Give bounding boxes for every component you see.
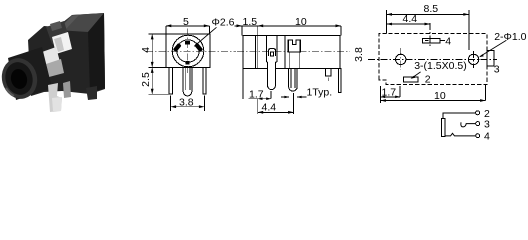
dim 4.4 bottom side [258,93,294,114]
svg-text:1Typ.: 1Typ. [307,87,333,99]
dim 1.5 / 10 top [234,26,341,36]
contact mark top [185,41,190,44]
slot 3 right [487,51,494,67]
svg-text:4: 4 [445,35,451,47]
svg-text:1.7: 1.7 [249,89,264,101]
body foot [86,86,97,100]
front pin right [203,68,206,94]
side pin middle [289,69,298,91]
svg-text:3.8: 3.8 [353,47,365,62]
inner circle phi2.6 [177,40,199,62]
side pin rear [338,69,341,93]
detail glyph [269,49,276,57]
front pin middle [183,68,192,96]
svg-text:1.5: 1.5 [243,16,258,28]
svg-text:4: 4 [484,131,490,143]
body top face [57,13,104,32]
top centerline [368,58,497,60]
pin3 hook [461,122,476,127]
svg-text:3-(1.5X0.5): 3-(1.5X0.5) [414,60,467,72]
hole right [468,54,478,64]
side body [243,36,340,69]
svg-text:2.5: 2.5 [140,72,152,87]
contact mark bottom [186,61,190,64]
svg-text:10: 10 [434,90,446,102]
svg-text:3: 3 [484,119,490,131]
svg-text:3: 3 [494,64,500,76]
step block shading [46,21,69,44]
pin metal front [48,83,62,112]
dim 4 / 2.5 left [149,34,169,94]
front view body [166,34,210,67]
dim 1Typ. [281,96,307,98]
svg-text:4.4: 4.4 [262,102,277,114]
contact mark upper-left [173,43,182,52]
svg-text:10: 10 [295,16,307,28]
metal contact top white [52,32,72,54]
metal contact low [46,59,64,77]
front pin middle inner lines [185,68,190,90]
svg-text:Φ2.6: Φ2.6 [212,17,235,29]
slot 2 lower-left [403,77,418,82]
side stub [325,69,331,76]
barrel cylinder [8,47,52,100]
pin3 terminal [476,122,480,126]
contact mark upper-right [194,43,203,52]
barrel face [0,54,41,102]
dim 5 [166,26,210,34]
pin4 terminal [476,134,480,138]
silhouette [28,13,105,96]
front pin left [169,68,172,94]
pin4 wire with caret [445,133,476,136]
slot 4 top [423,38,440,43]
photo: 2.5mm jack 3D image [0,13,105,112]
channel walls [265,36,267,62]
front centerline vertical [187,29,189,75]
pin metal right [63,81,71,98]
dim 3.8 bottom [171,96,205,111]
mid square legs [289,52,291,69]
hole left [396,54,406,64]
dim 1.7 bottom side [243,69,271,99]
dim 1.7 top view [380,86,400,103]
dim 4.4 top [387,23,431,25]
barrel joint lines [254,36,256,69]
metal contact mid [42,47,60,66]
svg-text:2-Φ1.0: 2-Φ1.0 [494,31,526,43]
svg-text:4: 4 [140,47,152,53]
outer circle [172,35,204,67]
mid square with notch [288,40,300,52]
dim 10 bottom top view [380,85,485,101]
svg-text:1.7: 1.7 [382,87,397,99]
sleeve bar [442,118,446,136]
svg-text:4.4: 4.4 [403,13,418,25]
top body dashed [379,34,487,85]
body right face [88,13,105,93]
svg-text:2: 2 [425,73,431,85]
svg-text:3.8: 3.8 [179,96,194,108]
mid wall [284,36,286,69]
pin2 wire [443,113,475,119]
front centerline horizontal [146,50,236,52]
side centerline [237,51,350,53]
side pin left [268,62,276,90]
svg-text:5: 5 [183,16,189,28]
svg-text:8.5: 8.5 [424,3,439,15]
pin2 terminal [476,111,480,115]
dim 8.5 [387,10,469,50]
